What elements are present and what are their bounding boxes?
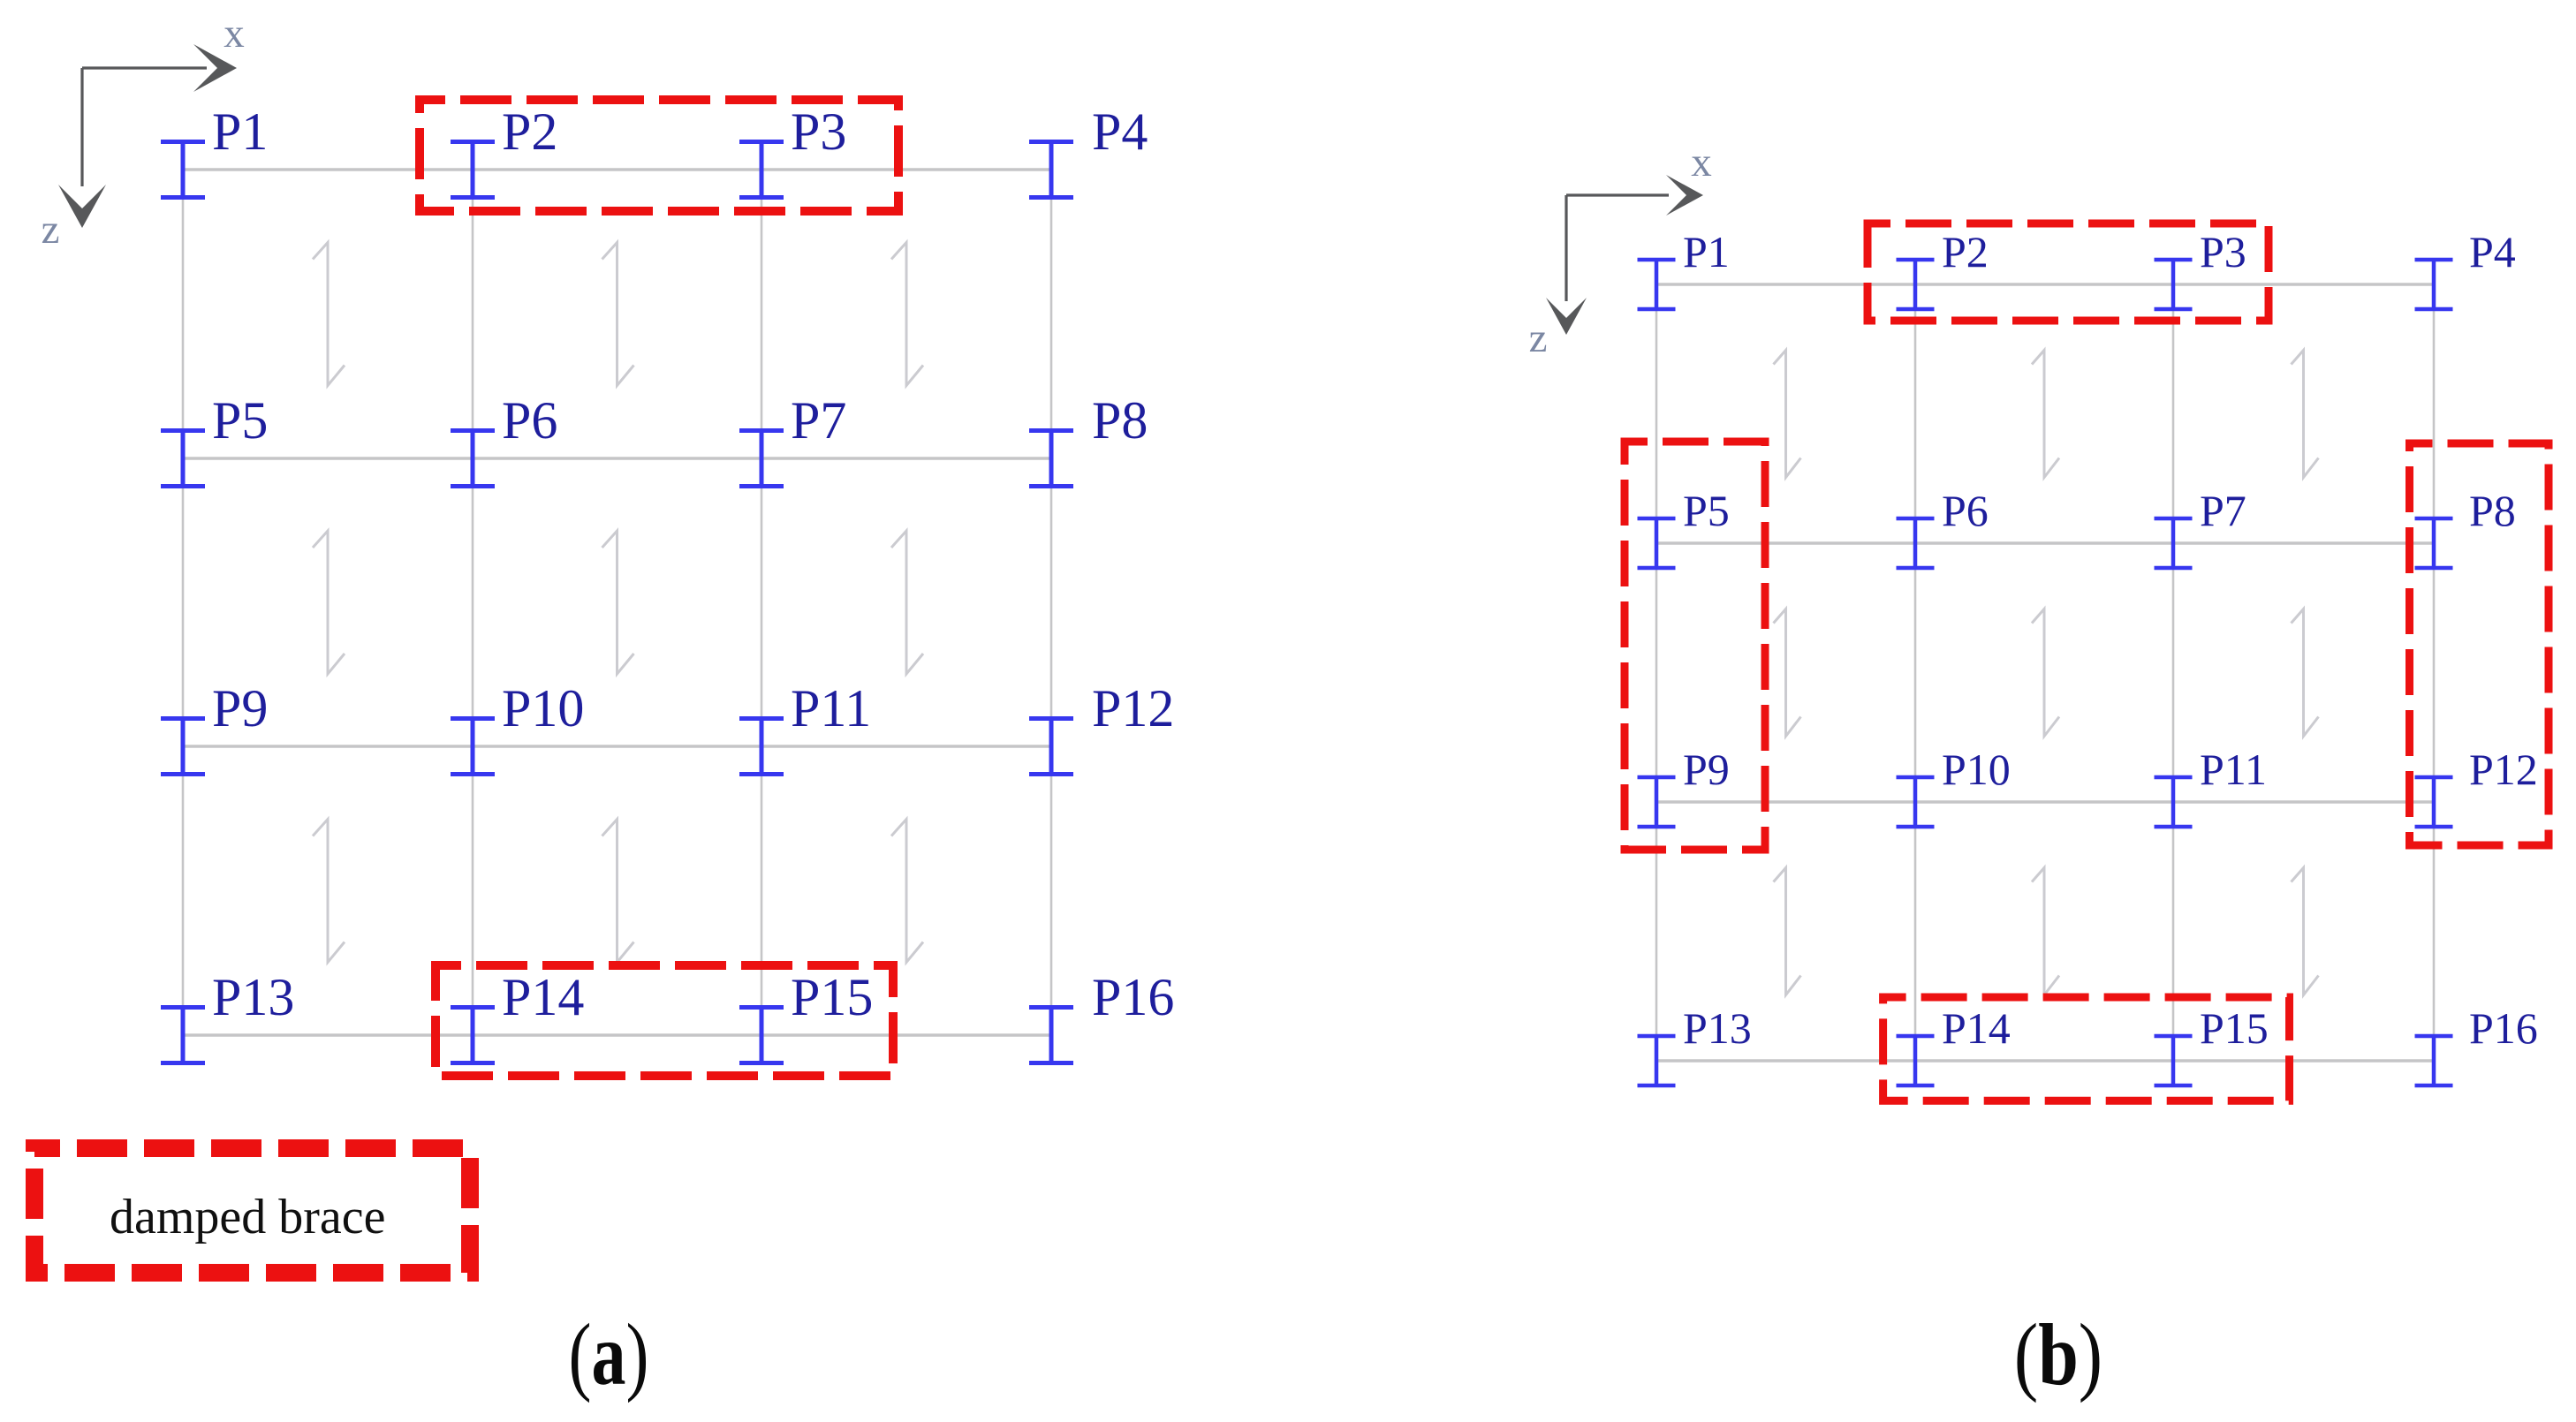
pier P5 a — [161, 391, 268, 487]
svg-text:(a): (a) — [569, 1306, 649, 1403]
wire column-line b col3 — [2172, 284, 2175, 1061]
svg-text:(b): (b) — [2014, 1305, 2102, 1403]
svg-text:P14: P14 — [1942, 1003, 2011, 1053]
svg-text:z: z — [42, 207, 60, 253]
svg-text:P8: P8 — [1092, 391, 1148, 450]
wire column-line b col1 — [1655, 284, 1658, 1061]
wire beam a row1 — [183, 168, 1051, 170]
pier P9 a — [161, 679, 268, 775]
damped-brace box b-top P2-P3 — [1868, 223, 2269, 321]
pier P3 a — [739, 102, 846, 198]
wire beam b row4 — [1656, 1059, 2434, 1062]
pier P6 b — [1897, 486, 1989, 568]
axis x arrowhead a — [193, 44, 237, 92]
svg-text:P6: P6 — [502, 391, 557, 450]
pier P15 a — [739, 968, 873, 1063]
damped-brace box a-bottom P14-P15 — [436, 965, 893, 1076]
damped-brace box a-top P2-P3 — [420, 100, 898, 211]
pier P8 b — [2415, 486, 2516, 568]
axis x arrowhead b — [1666, 175, 1703, 216]
svg-text:P13: P13 — [1683, 1003, 1752, 1053]
svg-text:z: z — [1529, 315, 1548, 361]
pier P7 a — [739, 391, 846, 487]
slab mark a cell r3c3 — [891, 820, 923, 963]
caption (a) — [569, 1306, 649, 1403]
pier P10 a — [451, 679, 584, 775]
slab mark b cell r2c1 — [1774, 609, 1801, 737]
svg-text:P5: P5 — [212, 391, 268, 450]
slab mark a cell r2c3 — [891, 531, 923, 674]
pier P14 b — [1897, 1003, 2011, 1085]
svg-text:P10: P10 — [1942, 745, 2011, 794]
pier P14 a — [451, 968, 584, 1063]
pier P2 a — [451, 102, 557, 198]
slab mark b cell r3c1 — [1774, 868, 1801, 995]
svg-text:P9: P9 — [1683, 745, 1730, 794]
wire column-line b col4 — [2433, 284, 2436, 1061]
svg-text:P4: P4 — [1092, 102, 1148, 161]
pier P16 a — [1029, 968, 1174, 1063]
svg-text:P1: P1 — [1683, 227, 1730, 276]
svg-text:x: x — [224, 11, 245, 57]
svg-text:P15: P15 — [791, 968, 873, 1026]
wire beam b row1 — [1656, 283, 2434, 285]
pier P2 b — [1897, 227, 1989, 309]
svg-text:P7: P7 — [2200, 486, 2246, 535]
axis lines a — [82, 68, 207, 186]
pier P13 b — [1638, 1003, 1752, 1085]
pier P7 b — [2155, 486, 2246, 568]
slab mark a cell r3c1 — [313, 820, 345, 963]
svg-text:P6: P6 — [1942, 486, 1989, 535]
svg-text:P9: P9 — [212, 679, 268, 737]
slab mark a cell r1c3 — [891, 243, 923, 386]
svg-text:P12: P12 — [2469, 745, 2538, 794]
svg-text:P8: P8 — [2469, 486, 2516, 535]
svg-text:P1: P1 — [212, 102, 268, 161]
svg-text:P15: P15 — [2200, 1003, 2269, 1053]
pier P3 b — [2155, 227, 2246, 309]
slab mark b cell r3c3 — [2292, 868, 2319, 995]
wire column-line a col4 — [1050, 170, 1053, 1035]
pier P8 a — [1029, 391, 1148, 487]
damped-brace box b-right P8-P12 — [2410, 443, 2549, 845]
wire beam b row2 — [1656, 541, 2434, 544]
pier P12 b — [2415, 745, 2538, 827]
pier P1 b — [1638, 227, 1730, 309]
pier P6 a — [451, 391, 557, 487]
svg-text:P2: P2 — [502, 102, 557, 161]
pier P16 b — [2415, 1003, 2538, 1085]
slab mark a cell r1c2 — [602, 243, 634, 386]
axis z arrowhead a — [58, 185, 106, 228]
pier P15 b — [2155, 1003, 2269, 1085]
slab mark a cell r3c2 — [602, 820, 634, 963]
wire column-line a col3 — [761, 170, 763, 1035]
axis lines b — [1566, 195, 1669, 301]
damped-brace box legend — [34, 1148, 470, 1273]
wire beam a row2 — [183, 457, 1051, 459]
svg-text:P10: P10 — [502, 679, 584, 737]
svg-text:P11: P11 — [791, 679, 871, 737]
svg-text:P7: P7 — [791, 391, 846, 450]
slab mark a cell r2c2 — [602, 531, 634, 674]
pier P10 b — [1897, 745, 2011, 827]
svg-text:P3: P3 — [791, 102, 846, 161]
slab mark b cell r1c3 — [2292, 351, 2319, 478]
slab mark a cell r2c1 — [313, 531, 345, 674]
pier P4 b — [2415, 227, 2516, 309]
pier P5 b — [1638, 486, 1730, 568]
pier P12 a — [1029, 679, 1174, 775]
slab mark b cell r1c1 — [1774, 351, 1801, 478]
pier P11 b — [2155, 745, 2267, 827]
svg-text:P3: P3 — [2200, 227, 2246, 276]
wire beam a row3 — [183, 745, 1051, 747]
slab mark b cell r1c2 — [2032, 351, 2059, 478]
wire column-line b col2 — [1914, 284, 1917, 1061]
svg-text:P5: P5 — [1683, 486, 1730, 535]
damped-brace box b-left P5-P9 — [1625, 442, 1765, 850]
svg-text:P16: P16 — [2469, 1003, 2538, 1053]
svg-text:P11: P11 — [2200, 745, 2267, 794]
slab mark b cell r2c3 — [2292, 609, 2319, 737]
wire beam b row3 — [1656, 800, 2434, 803]
axis z arrowhead b — [1546, 298, 1587, 335]
svg-text:P12: P12 — [1092, 679, 1174, 737]
pier P1 a — [161, 102, 268, 198]
svg-text:damped brace: damped brace — [110, 1190, 385, 1244]
slab mark b cell r2c2 — [2032, 609, 2059, 737]
svg-text:P16: P16 — [1092, 968, 1174, 1026]
wire column-line a col1 — [182, 170, 185, 1035]
slab mark a cell r1c1 — [313, 243, 345, 386]
caption (b) — [2014, 1305, 2102, 1403]
svg-text:P13: P13 — [212, 968, 294, 1026]
svg-text:P2: P2 — [1942, 227, 1989, 276]
svg-text:P14: P14 — [502, 968, 584, 1026]
svg-text:x: x — [1691, 140, 1712, 185]
wire beam a row4 — [183, 1033, 1051, 1036]
pier P4 a — [1029, 102, 1148, 198]
wire column-line a col2 — [472, 170, 474, 1035]
pier P13 a — [161, 968, 294, 1063]
pier P9 b — [1638, 745, 1730, 827]
damped-brace box b-bottom P14-P15 — [1883, 997, 2290, 1101]
svg-text:P4: P4 — [2469, 227, 2516, 276]
pier P11 a — [739, 679, 871, 775]
slab mark b cell r3c2 — [2032, 868, 2059, 995]
